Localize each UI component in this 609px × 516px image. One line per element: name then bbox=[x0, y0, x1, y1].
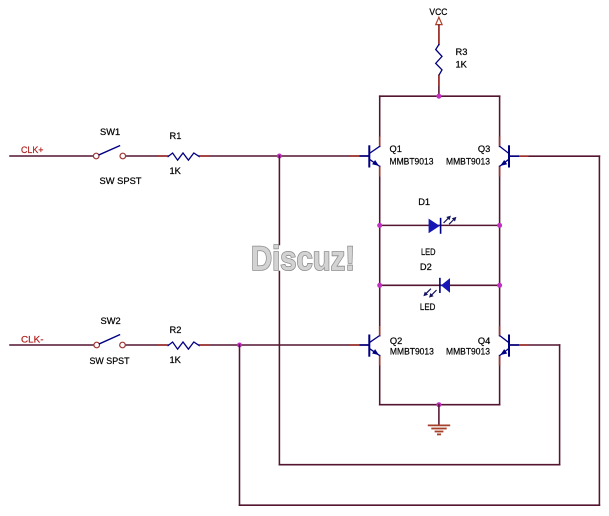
wire D1 bus bbox=[380, 224, 500, 226]
wire CLK- between switch and R2 bbox=[126, 344, 168, 346]
svg-text:SW SPST: SW SPST bbox=[90, 356, 130, 366]
svg-text:CLK+: CLK+ bbox=[21, 145, 44, 155]
pin stubs (red leads) bbox=[158, 26, 529, 366]
svg-text:Discuz!: Discuz! bbox=[251, 240, 355, 278]
wire Q4 base to x560 bbox=[510, 344, 560, 346]
svg-text:Q1: Q1 bbox=[390, 144, 402, 154]
node D2 bus right dot bbox=[497, 283, 502, 288]
resistor R2 bbox=[168, 342, 199, 349]
svg-text:1K: 1K bbox=[170, 166, 182, 176]
svg-text:SW1: SW1 bbox=[100, 127, 120, 137]
node D2 bus left dot bbox=[377, 283, 382, 288]
wire CLK- feedback vertical bbox=[239, 345, 241, 505]
svg-text:R2: R2 bbox=[170, 325, 182, 335]
svg-text:MMBT9013: MMBT9013 bbox=[446, 157, 490, 167]
wire CLK+ from R1 to Q1 base bbox=[199, 155, 369, 157]
svg-text:LED: LED bbox=[420, 302, 436, 312]
wire D2 bus bbox=[380, 284, 500, 286]
transistor Q4 bbox=[500, 336, 509, 356]
wire bottom bus bbox=[380, 404, 500, 406]
svg-text:1K: 1K bbox=[170, 355, 182, 365]
svg-text:Q3: Q3 bbox=[478, 144, 490, 154]
wire CLK+ rail left segment bbox=[10, 155, 93, 157]
svg-text:VCC: VCC bbox=[429, 7, 447, 17]
node D1 bus left dot bbox=[377, 223, 382, 228]
wire CLK+ between switch and R1 bbox=[126, 155, 168, 157]
power VCC symbol bbox=[436, 17, 442, 24]
transistor Q3 bbox=[500, 146, 509, 166]
wire right vertical middle (Q3 emitter to Q4 collector) bbox=[499, 166, 501, 335]
node CLK- junction dot bbox=[237, 343, 242, 348]
wire R3 to top bus bbox=[438, 75, 440, 96]
wire bottom outer horizontal bbox=[240, 504, 600, 506]
transistor Q2 bbox=[369, 336, 379, 356]
resistor R3 bbox=[436, 45, 442, 76]
wire inner bottom horizontal bbox=[279, 464, 559, 466]
node bottom bus junction dot bbox=[436, 402, 441, 407]
LED D1 bbox=[429, 216, 457, 234]
svg-text:D1: D1 bbox=[418, 197, 430, 207]
wire left vertical middle (Q1 emitter to Q2 collector) bbox=[379, 166, 381, 335]
svg-text:1K: 1K bbox=[456, 60, 468, 70]
wire right outer vertical bbox=[598, 156, 600, 505]
svg-text:SW SPST: SW SPST bbox=[100, 176, 142, 186]
switch SW2 bbox=[94, 342, 125, 348]
wire left vertical upper (top bus to Q1 collector) bbox=[379, 96, 381, 146]
svg-text:SW2: SW2 bbox=[101, 316, 121, 326]
switch SW1 bbox=[93, 153, 125, 159]
svg-text:CLK-: CLK- bbox=[21, 335, 44, 345]
svg-text:MMBT9013: MMBT9013 bbox=[390, 157, 434, 167]
svg-text:Q4: Q4 bbox=[478, 336, 490, 346]
node top bus junction dot bbox=[436, 94, 441, 99]
svg-text:Q2: Q2 bbox=[390, 336, 402, 346]
node D1 bus right dot bbox=[497, 223, 502, 228]
svg-text:MMBT9013: MMBT9013 bbox=[446, 347, 490, 357]
resistor R1 bbox=[168, 153, 199, 160]
transistor Q1 bbox=[369, 146, 379, 166]
svg-text:D2: D2 bbox=[420, 262, 432, 272]
svg-text:MMBT9013: MMBT9013 bbox=[390, 347, 434, 357]
wire right vertical upper (top bus to Q3 collector) bbox=[499, 96, 501, 146]
wire VCC to R3 bbox=[438, 26, 440, 45]
transistor base lead navy stubs bbox=[360, 156, 520, 345]
wire left vertical lower (Q2 emitter to bottom bus) bbox=[379, 356, 381, 405]
ground bbox=[429, 405, 450, 435]
wire CLK+ feedback vertical (upper) bbox=[278, 156, 280, 245]
wire CLK- from R2 to Q2 base bbox=[199, 344, 369, 346]
wire right vertical lower (Q4 emitter to bottom bus) bbox=[499, 356, 501, 405]
wire Q3 base to right edge bbox=[510, 155, 600, 157]
wire CLK- rail left segment bbox=[10, 344, 94, 346]
svg-text:R1: R1 bbox=[170, 131, 182, 141]
wire top bus bbox=[380, 95, 500, 97]
node CLK+ junction dot bbox=[277, 154, 282, 159]
svg-text:LED: LED bbox=[421, 247, 436, 257]
wire CLK+ feedback vertical (lower) bbox=[278, 272, 280, 465]
wire inner right vertical bbox=[559, 345, 561, 465]
LED D2 bbox=[423, 278, 450, 298]
svg-text:R3: R3 bbox=[456, 47, 468, 57]
